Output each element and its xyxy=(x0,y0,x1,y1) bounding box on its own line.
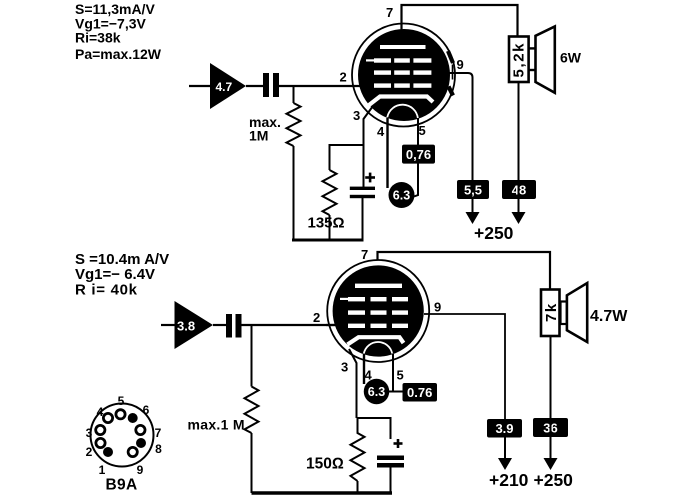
tube V1 grid row 1 xyxy=(366,58,431,62)
wire ground rail circuit 2 xyxy=(252,491,393,494)
svg-text:6W: 6W xyxy=(560,50,582,66)
tube V2 envelope circle xyxy=(327,260,429,362)
tube V2 grid row 1 xyxy=(340,297,408,301)
B9A pin 3 xyxy=(96,425,105,434)
svg-text:max.1 M: max.1 M xyxy=(188,417,245,433)
svg-text:150Ω: 150Ω xyxy=(306,456,344,473)
wire transformer T2 bottom to supply box xyxy=(550,336,552,458)
wire V1 pin 3 cathode down xyxy=(364,106,374,187)
tube V2 internal disc xyxy=(333,265,424,356)
svg-text:4: 4 xyxy=(97,405,104,419)
svg-text:7: 7 xyxy=(155,426,162,440)
svg-text:5: 5 xyxy=(118,394,125,408)
wire triangle A1 to capacitor C1 xyxy=(246,85,263,87)
current label box 5,5 xyxy=(457,180,489,199)
wire capacitor C4 to ground rail circuit 2 xyxy=(390,468,392,494)
wire V1 pin 7 anode to top rail xyxy=(402,5,518,37)
wire triangle A2 to capacitor C3 xyxy=(213,324,226,326)
svg-text:8: 8 xyxy=(155,442,162,456)
svg-text:0.76: 0.76 xyxy=(407,385,432,400)
wire resistor R4 to ground rail circuit 2 xyxy=(357,481,359,493)
wire capacitor C2 to ground rail circuit 1 xyxy=(362,198,364,240)
svg-text:135Ω: 135Ω xyxy=(308,215,345,232)
capacitor C2 electrolytic plus sign xyxy=(365,173,375,183)
B9A socket base circle xyxy=(91,404,154,467)
svg-text:9: 9 xyxy=(137,463,144,477)
tube V2 cathode xyxy=(348,337,404,344)
svg-text:6.3: 6.3 xyxy=(368,385,385,399)
B9A pin 5 xyxy=(116,410,125,419)
supply arrow screen circuit 2 xyxy=(498,438,512,471)
wire V1 pin 5 heater xyxy=(414,118,418,197)
svg-text:6: 6 xyxy=(143,403,150,417)
resistor R1 max. 1M xyxy=(287,103,301,146)
svg-text:+210: +210 xyxy=(489,470,529,490)
wire transformer T1 bottom to supply box xyxy=(518,82,520,212)
svg-text:9: 9 xyxy=(434,300,441,315)
tube V1 internal disc xyxy=(358,29,450,121)
coupling capacitor C3 xyxy=(226,314,242,338)
svg-text:5: 5 xyxy=(419,123,426,138)
current label box 48 xyxy=(502,180,536,199)
transformer T1 primary 5,2k xyxy=(509,37,529,83)
resistor R2 135Ω xyxy=(323,170,337,215)
svg-text:4.7: 4.7 xyxy=(216,80,233,94)
svg-text:1M: 1M xyxy=(249,128,268,144)
wire input lead circuit 2 xyxy=(161,324,176,326)
svg-text:+250: +250 xyxy=(534,470,574,490)
wire V2 pin 7 anode to top rail xyxy=(378,252,551,290)
capacitor C4 electrolytic plus sign xyxy=(394,439,403,448)
wire ground rail circuit 1 xyxy=(292,239,364,242)
svg-text:5,5: 5,5 xyxy=(464,183,482,198)
wire resistor R3 to ground rail circuit 2 xyxy=(251,433,253,493)
svg-text:6.3: 6.3 xyxy=(393,189,410,203)
supply arrow screen circuit 1 xyxy=(466,199,480,224)
resistor R3 max.1 M xyxy=(245,387,259,434)
wire input lead circuit 1 xyxy=(189,85,211,87)
wire cathode rail to resistor R2 xyxy=(330,145,364,170)
heater label circle 6.3 circuit 2 xyxy=(364,379,390,405)
B9A pin 8 filled xyxy=(136,438,146,448)
svg-text:3: 3 xyxy=(353,108,360,123)
coupling capacitor C1 xyxy=(263,73,279,97)
svg-text:B9A: B9A xyxy=(106,477,138,494)
tube V1 anode bar xyxy=(380,45,426,49)
cathode current box 0,76 circuit 1 xyxy=(402,145,435,164)
tube V2 grid row 2 xyxy=(348,310,408,314)
B9A pin 6 filled xyxy=(128,413,138,423)
svg-text:5: 5 xyxy=(397,368,404,383)
B9A pin 4 xyxy=(103,413,112,422)
tube V2 anode bar xyxy=(355,284,402,288)
wire capacitor C3 to V2 grid pin 2 xyxy=(242,324,337,326)
speaker LS2 driver xyxy=(561,283,588,342)
current label box 36 xyxy=(533,418,568,437)
svg-text:1: 1 xyxy=(99,463,106,477)
wire V2 pin 5 heater xyxy=(392,354,394,392)
svg-text:Ri=38k: Ri=38k xyxy=(75,30,121,46)
tube V1 grid row 2 xyxy=(374,70,431,74)
wire V1 pin 9 to screen feed xyxy=(449,73,473,180)
B9A pin 9 xyxy=(128,447,137,456)
wire V1 pin 9 stub xyxy=(452,65,454,80)
svg-text:3.8: 3.8 xyxy=(177,319,195,334)
svg-text:4.7W: 4.7W xyxy=(590,308,628,325)
wire V2 pin 2 grid xyxy=(326,324,336,326)
wire capacitor C1 to V1 grid pin 2 xyxy=(279,85,361,87)
svg-text:2: 2 xyxy=(313,310,320,325)
wire V2 pin 3 cathode down xyxy=(349,349,357,418)
svg-text:3.9: 3.9 xyxy=(495,421,513,436)
svg-text:Vg1=− 6.4V: Vg1=− 6.4V xyxy=(75,266,155,283)
svg-text:+250: +250 xyxy=(474,223,514,243)
transformer T2 primary 7k xyxy=(541,290,560,337)
svg-text:0,76: 0,76 xyxy=(406,147,431,162)
B9A pin 7 xyxy=(136,425,145,434)
svg-text:2: 2 xyxy=(340,70,347,85)
speaker LS1 driver xyxy=(529,27,555,93)
tube V1 grid row 3 xyxy=(374,83,431,87)
wire V2 pin 9 to supply xyxy=(424,314,505,419)
capacitor C2 electrolytic plates xyxy=(350,187,375,199)
svg-text:R i= 40k: R i= 40k xyxy=(75,282,138,299)
current label box 3.9 xyxy=(487,419,522,438)
input attenuator triangle A1 value 4.7 xyxy=(210,63,246,109)
svg-text:5,2k: 5,2k xyxy=(511,42,528,78)
wire cathode node to capacitor C4 circuit 2 xyxy=(357,418,391,439)
svg-text:2: 2 xyxy=(86,445,93,459)
value label max. 1M xyxy=(249,114,281,144)
svg-text:7: 7 xyxy=(386,5,393,20)
node grid junction circuit 1 xyxy=(293,86,295,103)
tube V2 grid row 3 xyxy=(348,324,408,328)
svg-text:3: 3 xyxy=(341,360,348,375)
heater label circle 6.3 circuit 1 xyxy=(389,182,415,208)
svg-text:Pa=max.12W: Pa=max.12W xyxy=(75,46,162,62)
B9A pin 1 filled xyxy=(103,447,113,457)
capacitor C4 electrolytic plates xyxy=(377,456,404,468)
resistor R4 150Ω xyxy=(351,418,365,481)
wire heater circle to box 0.76 circuit 2 xyxy=(389,391,403,393)
node grid junction circuit 2 xyxy=(251,325,253,387)
svg-text:4: 4 xyxy=(377,124,385,139)
tube V1 heater loop upper arc xyxy=(387,105,418,119)
tube V1 cathode xyxy=(369,97,433,106)
supply arrow anode circuit 2 xyxy=(544,437,558,470)
supply arrow anode circuit 1 xyxy=(512,199,526,224)
wire V2 pin 4 heater xyxy=(363,354,365,384)
svg-text:3: 3 xyxy=(86,426,93,440)
tube V1 envelope circle xyxy=(352,24,455,127)
tube V2 heater loop upper arc xyxy=(364,342,392,354)
svg-text:9: 9 xyxy=(457,57,464,72)
wire resistor R1 to ground rail circuit 1 xyxy=(293,146,295,240)
svg-text:7k: 7k xyxy=(543,302,560,322)
B9A pin 2 xyxy=(96,438,105,447)
svg-text:7: 7 xyxy=(361,247,368,262)
tube V1 envelope tick marks right side xyxy=(448,51,453,96)
wire resistor R2 to ground rail circuit 1 xyxy=(329,215,331,240)
input attenuator triangle A2 value 3.8 xyxy=(175,301,214,349)
cathode current box 0.76 circuit 2 xyxy=(403,383,438,402)
wire V1 pin 4 heater xyxy=(386,118,388,188)
